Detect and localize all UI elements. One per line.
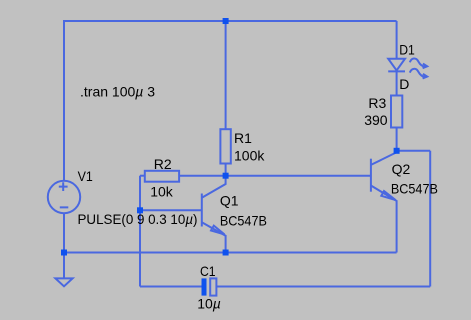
svg-text:V1: V1: [78, 168, 93, 184]
wire left column: [63, 20, 65, 181]
voltage source V1: [48, 181, 80, 213]
svg-text:R2: R2: [154, 156, 172, 172]
wire R1 bottom: [225, 164, 227, 176]
wire C1 right: [216, 286, 430, 288]
svg-text:Q2: Q2: [392, 161, 411, 177]
wire top rail: [64, 20, 397, 22]
svg-text:R3: R3: [368, 95, 386, 111]
wire R3 bottom: [396, 128, 398, 151]
wire LED to R3: [396, 71, 398, 95]
junction Q1 emitter: [223, 250, 229, 256]
wire LED column: [396, 21, 398, 59]
svg-text:10µ: 10µ: [197, 296, 221, 312]
transistor Q1: [202, 176, 226, 253]
svg-text:D: D: [399, 76, 409, 92]
wire C1 left: [140, 286, 202, 288]
junction Q2 collector: [394, 148, 400, 154]
svg-text:Q1: Q1: [220, 193, 239, 209]
svg-text:D1: D1: [399, 42, 415, 58]
wire Q1 base: [140, 209, 202, 211]
svg-text:390: 390: [364, 112, 388, 128]
LED D1: [388, 59, 427, 79]
svg-text:BC547B: BC547B: [391, 180, 438, 196]
junction R1 / R2 / Q1 collector: [223, 173, 229, 179]
wire right column: [429, 151, 431, 287]
resistor R3: [391, 96, 402, 128]
svg-text:10k: 10k: [150, 183, 174, 199]
svg-text:PULSE(0 9 0.3 10µ): PULSE(0 9 0.3 10µ): [78, 211, 198, 227]
ground: [55, 278, 72, 286]
junction top rail / R1: [223, 18, 229, 24]
capacitor C1: [202, 278, 217, 295]
resistor R2: [145, 171, 179, 182]
transistor Q2: [371, 151, 397, 253]
svg-text:C1: C1: [200, 263, 216, 279]
svg-text:BC547B: BC547B: [220, 213, 267, 229]
wire R2 left stub: [140, 175, 145, 177]
wire Q2 collector to right column: [397, 150, 431, 152]
wire R1 column top: [225, 21, 227, 129]
svg-text:R1: R1: [234, 130, 252, 146]
svg-text:.tran 100µ 3: .tran 100µ 3: [80, 84, 155, 100]
resistor R1: [220, 129, 230, 163]
junction V1 bottom: [61, 250, 67, 256]
wire V1 bottom: [63, 213, 65, 279]
junction base node: [137, 207, 143, 213]
wire R2 right to junction and Q2 base: [179, 175, 371, 177]
svg-text:100k: 100k: [234, 147, 265, 163]
wire left column C1/R2/base: [139, 176, 141, 287]
wire bottom rail: [64, 252, 397, 254]
